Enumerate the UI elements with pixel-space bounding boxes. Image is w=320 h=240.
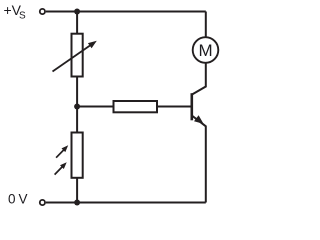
node A: top junction (74, 9, 80, 15)
svg-text:S: S (19, 11, 26, 22)
LDR R2 (55, 133, 83, 178)
wire emitter to bottom rail (192, 116, 206, 203)
wire right side collector branch (205, 12, 207, 38)
resistor R3 (base resistor) (114, 101, 158, 112)
terminal 0V (40, 200, 45, 205)
wire motor to transistor collector (192, 63, 206, 95)
node B: middle junction (74, 104, 80, 110)
transistor Q1 (192, 93, 204, 124)
wire base: junction to resistor to transistor base (77, 106, 113, 108)
node C: bottom junction (74, 200, 80, 206)
wire top rail (46, 11, 206, 13)
wire between LDR and bottom rail (76, 178, 78, 203)
motor M1 (193, 37, 219, 63)
svg-text:M: M (199, 41, 213, 60)
variable resistor R1 (53, 34, 97, 77)
svg-text:0 V: 0 V (8, 192, 27, 207)
wire between variable resistor and junction (76, 77, 78, 133)
wire left branch upper (76, 12, 78, 34)
terminal +Vs (40, 9, 45, 14)
wire bottom rail (46, 202, 206, 204)
